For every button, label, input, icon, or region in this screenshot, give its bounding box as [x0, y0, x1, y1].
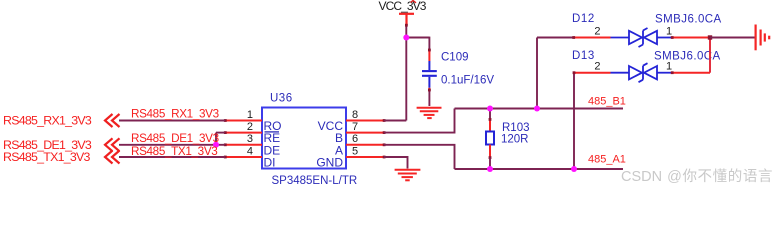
wire A-line	[455, 168, 624, 170]
pin end dot VCC stem	[405, 24, 408, 27]
pin C109 bottom lead	[428, 88, 430, 91]
wire DI row	[119, 156, 225, 158]
wire VCC branch to C109	[406, 37, 429, 39]
svg-text:RS485_RX1_3V3: RS485_RX1_3V3	[131, 107, 219, 120]
capacitor C109	[422, 61, 437, 88]
pin 8 stub	[346, 120, 384, 122]
ERC marker red tick	[411, 1, 417, 3]
IC U36 body	[262, 108, 346, 169]
svg-text:2: 2	[594, 26, 600, 38]
junction VCC node	[403, 35, 409, 41]
junction A/D13	[571, 166, 577, 172]
pin 1 stub	[225, 120, 262, 122]
wire B to D12 vertical	[536, 38, 538, 109]
wire RE row	[216, 132, 225, 134]
wire C109 top	[428, 37, 430, 50]
svg-text:C109: C109	[441, 52, 469, 64]
pin 4 stub	[225, 156, 262, 158]
pin D12 left lead	[574, 37, 611, 39]
wire VCC stem	[405, 25, 407, 38]
svg-text:RS485_RX1_3V3: RS485_RX1_3V3	[3, 114, 92, 128]
pin 5 stub	[346, 156, 384, 158]
resistor R103 body	[486, 132, 494, 145]
svg-text:1: 1	[666, 26, 672, 38]
pin D13 left lead	[574, 72, 611, 74]
svg-text:SMBJ6.0CA: SMBJ6.0CA	[655, 14, 722, 26]
svg-text:D12: D12	[572, 13, 595, 25]
wire D13 right vertical	[709, 38, 711, 73]
junction D12/D13 right	[708, 35, 712, 39]
power symbol VCC_3V3 bar	[399, 14, 414, 25]
pin end dots left pins	[224, 119, 386, 158]
svg-text:RS485_TX1_3V3: RS485_TX1_3V3	[3, 150, 91, 164]
svg-text:6: 6	[352, 133, 358, 145]
svg-text:DI: DI	[264, 156, 276, 170]
wire A to D13 vertical	[573, 73, 575, 169]
svg-text:1: 1	[247, 109, 253, 121]
wire pin7 to B-line	[384, 109, 455, 133]
junction B/D12	[534, 106, 540, 112]
diode D13 TVS	[611, 63, 673, 82]
wire R103 bottom	[489, 158, 491, 170]
svg-text:5: 5	[352, 145, 358, 157]
wire D12 left	[537, 37, 574, 39]
wire B-line	[455, 108, 624, 110]
pin D13 right lead	[672, 72, 710, 74]
svg-text:7: 7	[352, 121, 358, 133]
svg-text:RS485_DE1_3V3: RS485_DE1_3V3	[131, 132, 219, 145]
overbar for RE	[265, 131, 280, 133]
wire pin6 to A-line	[384, 145, 455, 169]
chevron TX	[105, 151, 120, 164]
svg-text:R103: R103	[502, 122, 530, 134]
pin D12 right lead	[672, 37, 710, 39]
chevron RX	[105, 114, 120, 127]
pin 3 stub	[225, 144, 262, 146]
svg-text:485_B1: 485_B1	[588, 96, 626, 108]
svg-text:2: 2	[247, 121, 253, 133]
junction R103 bottom	[487, 166, 493, 172]
svg-text:120R: 120R	[501, 134, 529, 146]
diode D12 TVS	[611, 28, 673, 47]
ground under C109	[417, 108, 442, 118]
pin 7 stub	[346, 132, 384, 134]
svg-text:1: 1	[666, 61, 672, 73]
junction R103 top	[487, 106, 493, 112]
wire RE to DE vertical	[215, 133, 217, 145]
wire RO row	[119, 120, 225, 122]
svg-text:0.1uF/16V: 0.1uF/16V	[441, 75, 494, 87]
svg-text:485_A1: 485_A1	[588, 153, 626, 165]
svg-text:GND: GND	[316, 156, 343, 170]
svg-text:CSDN @你不懂的语言: CSDN @你不懂的语言	[621, 168, 772, 185]
pin 2 stub	[225, 132, 262, 134]
wire DE row	[119, 144, 225, 146]
svg-text:VCC_3V3: VCC_3V3	[379, 0, 427, 13]
pin R103 bottom lead	[489, 145, 491, 158]
pin 6 stub	[346, 144, 384, 146]
svg-text:D13: D13	[572, 50, 595, 62]
wire pin8 to VCC	[384, 120, 406, 122]
pin C109 top lead	[428, 50, 430, 62]
svg-text:3: 3	[247, 133, 253, 145]
wire R103 top	[489, 109, 491, 120]
chevron DE	[105, 138, 120, 151]
earth ground right	[756, 25, 770, 51]
wire VCC vertical to pin 8	[405, 38, 407, 121]
junction RE/DE	[213, 142, 219, 148]
pin R103 top lead	[489, 119, 491, 132]
svg-text:RS485_TX1_3V3: RS485_TX1_3V3	[131, 145, 217, 158]
svg-text:U36: U36	[270, 93, 293, 105]
svg-text:2: 2	[594, 61, 600, 73]
svg-text:8: 8	[352, 109, 358, 121]
wire to earth	[710, 37, 755, 39]
svg-text:4: 4	[247, 145, 253, 157]
wire C109 to ground	[428, 91, 430, 107]
svg-text:SP3485EN-L/TR: SP3485EN-L/TR	[272, 175, 358, 187]
ground at pin5	[395, 170, 421, 181]
wire pin5 to ground	[384, 157, 408, 169]
